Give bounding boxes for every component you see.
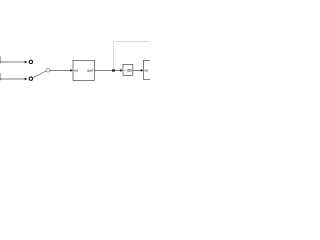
- switch pole circle: [46, 68, 50, 72]
- arrowhead into right block: [141, 69, 144, 72]
- gain block (value 100): [123, 64, 133, 75]
- switch throw terminal 1 (open circle): [29, 60, 32, 63]
- subsystem output port label out1: [88, 69, 93, 71]
- switch throw terminal 2 (open circle): [29, 77, 32, 80]
- right block input port label: [145, 69, 148, 71]
- wire from inport 1: [0, 61, 25, 63]
- arrowhead into gain block: [120, 69, 123, 72]
- arrowhead into switch throw 2: [25, 78, 28, 81]
- subsystem input port label in1: [75, 69, 78, 71]
- inport 2 (cut off at left edge): [0, 73, 1, 80]
- wire subsystem output: [94, 69, 120, 71]
- wire switch pole to subsystem: [50, 69, 70, 71]
- gain block value label: [125, 69, 132, 71]
- branch wire up and right: [114, 42, 150, 71]
- inport 1 (cut off at left edge): [0, 56, 1, 63]
- arrowhead into switch throw 1: [25, 61, 28, 64]
- wire gain to outport block: [133, 69, 141, 71]
- arrowhead into subsystem: [70, 69, 73, 72]
- right block (cut off at right edge): [143, 60, 153, 79]
- wire from inport 2: [0, 78, 25, 80]
- branch junction dot: [112, 69, 115, 72]
- switch lever (diagonal): [33, 71, 46, 78]
- subsystem block U1: [73, 60, 94, 80]
